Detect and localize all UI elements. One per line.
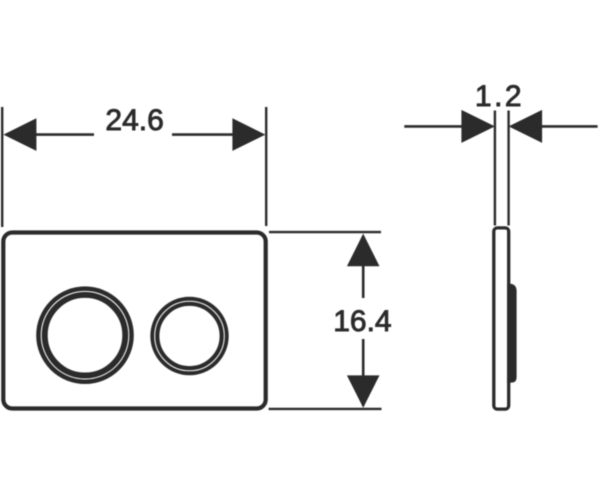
width dimension arrow left xyxy=(3,118,36,151)
svg-text:1.2: 1.2 xyxy=(475,80,524,113)
flush plate front view outline xyxy=(3,233,265,409)
width dimension extension line left xyxy=(1,107,3,227)
height dimension extension line top xyxy=(269,231,381,233)
svg-text:24.6: 24.6 xyxy=(105,104,163,137)
thickness dimension line right xyxy=(541,125,598,128)
height dimension arrow down xyxy=(347,375,380,407)
width dimension line left segment xyxy=(34,133,94,136)
left button ring xyxy=(42,292,128,378)
left button ring inner white line xyxy=(41,291,129,379)
width dimension line right segment xyxy=(172,133,234,136)
thickness dimension arrow left xyxy=(461,110,495,143)
height dimension line upper segment xyxy=(362,236,365,298)
svg-text:16.4: 16.4 xyxy=(333,305,391,338)
width dimension arrow right xyxy=(232,118,265,151)
height dimension arrow up xyxy=(347,234,380,267)
side view button bump xyxy=(507,284,517,383)
thickness dimension arrow right xyxy=(509,110,542,143)
height dimension line lower segment xyxy=(362,339,365,406)
right button ring xyxy=(155,301,224,370)
side view plate outline xyxy=(494,228,509,409)
width dimension extension line right xyxy=(265,107,267,226)
thickness dimension extension line right xyxy=(507,111,509,226)
height dimension extension line bottom xyxy=(269,408,382,410)
thickness dimension extension line left xyxy=(494,111,496,226)
right button ring inner white line xyxy=(155,301,225,371)
thickness dimension line left xyxy=(404,125,463,128)
